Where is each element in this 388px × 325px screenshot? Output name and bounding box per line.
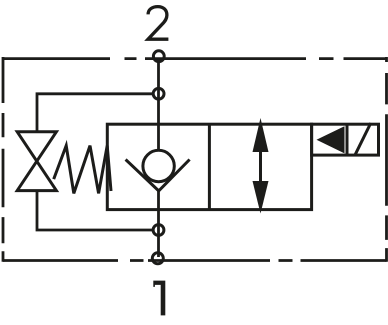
solenoid arrow (filled triangle) [317, 126, 345, 153]
wire: port 2 down to valve body [157, 59, 160, 150]
solenoid divider [346, 124, 349, 155]
check valve ball [143, 150, 174, 181]
valve body center divider [208, 124, 211, 209]
double arrow stem (right cell) [259, 150, 262, 186]
valve body (two cells) [107, 124, 311, 209]
enclosure bottom border (dashed) [3, 259, 387, 262]
shut-off valve upper triangle [17, 132, 56, 161]
double arrow lower head [253, 181, 269, 214]
spring [54, 146, 111, 194]
wire: upper pilot line [37, 94, 153, 132]
wire: lower pilot line [37, 191, 153, 230]
enclosure top border (dashed) [3, 57, 387, 60]
solenoid box [312, 124, 379, 155]
check valve seat (V) [126, 160, 190, 191]
port label 1 [153, 281, 165, 316]
junction node: upper pilot tap [153, 88, 164, 99]
shut-off valve lower triangle [17, 161, 56, 190]
solenoid diagonal stroke [355, 123, 371, 155]
port node circle 2 [153, 51, 164, 62]
enclosure left border (dashed) [2, 57, 5, 262]
enclosure right border (dashed) [385, 57, 388, 262]
double arrow upper head [253, 118, 269, 152]
junction node: lower pilot tap [153, 225, 164, 236]
port label 2 [148, 7, 168, 40]
wire: check valve apex down to port 1 [157, 191, 160, 257]
port node circle 1 [152, 253, 163, 264]
